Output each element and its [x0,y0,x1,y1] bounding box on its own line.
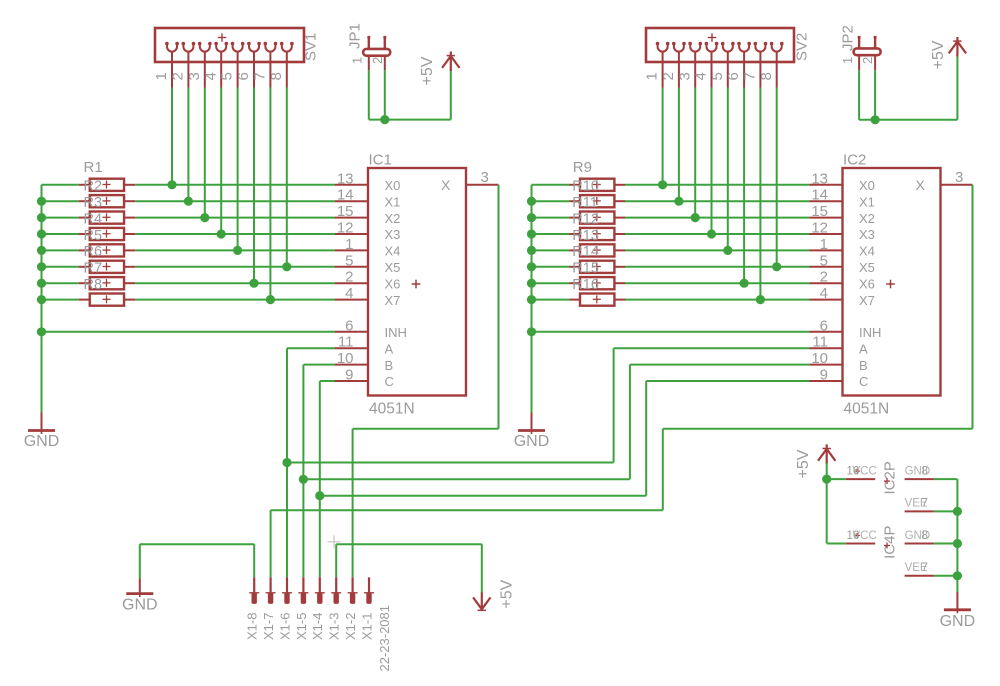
svg-text:X: X [441,177,451,193]
svg-text:4: 4 [345,285,353,302]
svg-text:5: 5 [709,72,726,80]
svg-text:IC1: IC1 [369,152,392,169]
svg-text:5: 5 [219,72,236,80]
svg-text:2: 2 [370,57,385,64]
svg-text:+5V: +5V [795,449,812,478]
svg-text:X4: X4 [859,244,875,259]
svg-text:IC4P: IC4P [882,526,899,559]
svg-text:X1-6: X1-6 [277,613,292,640]
svg-text:X1: X1 [385,194,401,209]
svg-text:X1-8: X1-8 [245,613,260,640]
svg-text:X3: X3 [385,227,401,242]
svg-text:3: 3 [955,169,963,186]
svg-text:B: B [385,358,394,373]
svg-text:13: 13 [811,170,828,187]
svg-text:X1-1: X1-1 [359,613,374,640]
svg-text:X1-4: X1-4 [310,613,325,640]
svg-text:+5V: +5V [930,40,947,69]
svg-text:X2: X2 [859,211,875,226]
svg-text:1: 1 [345,236,353,253]
svg-text:6: 6 [345,317,353,334]
svg-text:X5: X5 [385,260,401,275]
svg-text:INH: INH [385,325,407,340]
svg-text:B: B [859,358,868,373]
svg-text:R16: R16 [572,277,599,293]
svg-text:A: A [385,341,394,356]
svg-text:4051N: 4051N [844,401,890,418]
svg-text:10: 10 [337,350,354,367]
svg-text:R12: R12 [572,211,599,227]
svg-text:12: 12 [337,220,354,237]
svg-text:7: 7 [742,72,759,80]
svg-text:R14: R14 [572,244,599,260]
svg-text:C: C [859,374,868,389]
svg-text:12: 12 [811,220,828,237]
svg-text:6: 6 [820,317,828,334]
svg-text:R2: R2 [84,179,103,195]
svg-text:X3: X3 [859,227,875,242]
svg-text:R8: R8 [84,277,103,293]
svg-text:R1: R1 [84,159,103,176]
svg-text:1: 1 [820,236,828,253]
svg-text:2: 2 [860,57,875,64]
svg-text:8: 8 [922,465,928,477]
svg-text:9: 9 [345,367,353,384]
svg-text:2: 2 [345,269,353,286]
svg-text:GND: GND [24,433,60,450]
svg-text:X5: X5 [859,260,875,275]
svg-text:1: 1 [840,57,855,64]
svg-text:JP1: JP1 [347,23,364,49]
svg-text:3: 3 [481,169,489,186]
svg-text:4051N: 4051N [369,401,415,418]
svg-text:3: 3 [676,72,693,80]
svg-text:+5V: +5V [419,56,436,85]
svg-text:+5V: +5V [499,579,516,608]
svg-text:R13: R13 [572,228,599,244]
svg-text:R10: R10 [572,179,599,195]
svg-text:7: 7 [922,562,928,574]
svg-text:10: 10 [811,350,828,367]
svg-text:SV1: SV1 [303,33,320,61]
svg-text:R6: R6 [84,244,103,260]
svg-text:15: 15 [337,203,354,220]
svg-text:IC2P: IC2P [882,461,899,494]
svg-text:R9: R9 [573,159,592,176]
svg-text:JP2: JP2 [840,25,857,51]
svg-text:X6: X6 [859,276,875,291]
svg-text:15: 15 [811,203,828,220]
svg-text:8: 8 [922,530,928,542]
svg-text:1: 1 [644,72,661,80]
svg-text:R7: R7 [84,261,103,277]
svg-text:R15: R15 [572,261,599,277]
svg-text:GND: GND [122,597,158,614]
svg-text:9: 9 [820,367,828,384]
svg-text:GND: GND [940,613,976,630]
svg-text:7: 7 [922,498,928,510]
svg-text:11: 11 [812,334,828,351]
svg-text:14: 14 [337,187,354,204]
svg-text:X1: X1 [859,194,875,209]
svg-text:C: C [385,374,394,389]
svg-text:X0: X0 [859,178,875,193]
svg-text:R3: R3 [84,195,103,211]
svg-text:X1-5: X1-5 [294,613,309,640]
svg-text:2: 2 [170,72,187,80]
svg-text:6: 6 [725,72,742,80]
svg-text:A: A [859,341,868,356]
svg-text:4: 4 [820,285,828,302]
svg-text:X: X [916,177,926,193]
svg-text:1: 1 [350,57,365,64]
svg-text:X1-2: X1-2 [343,613,358,640]
svg-text:8: 8 [758,72,775,80]
svg-text:INH: INH [859,325,881,340]
svg-text:14: 14 [811,187,828,204]
svg-text:4: 4 [693,72,710,80]
svg-text:X7: X7 [385,293,401,308]
svg-text:22-23-2081: 22-23-2081 [377,605,392,672]
svg-text:VCC: VCC [853,530,877,542]
svg-text:7: 7 [252,72,269,80]
svg-text:R11: R11 [572,195,598,211]
svg-text:X1-7: X1-7 [261,613,276,640]
svg-text:X6: X6 [385,276,401,291]
svg-text:4: 4 [202,72,219,80]
svg-text:IC2: IC2 [843,152,866,169]
svg-text:X7: X7 [859,293,875,308]
svg-text:2: 2 [820,269,828,286]
svg-text:R5: R5 [84,228,103,244]
svg-text:X4: X4 [385,244,401,259]
svg-text:2: 2 [660,72,677,80]
svg-text:X0: X0 [385,178,401,193]
svg-text:1: 1 [153,72,170,80]
svg-text:X1-3: X1-3 [327,613,342,640]
svg-text:VCC: VCC [853,465,877,477]
svg-text:SV2: SV2 [794,33,811,61]
svg-text:3: 3 [186,72,203,80]
svg-text:8: 8 [268,72,285,80]
svg-text:13: 13 [337,170,354,187]
svg-text:6: 6 [235,72,252,80]
svg-text:R4: R4 [84,211,103,227]
svg-text:11: 11 [338,334,354,351]
svg-text:5: 5 [820,252,828,269]
svg-text:GND: GND [514,433,550,450]
svg-text:5: 5 [345,252,353,269]
svg-text:X2: X2 [385,211,401,226]
